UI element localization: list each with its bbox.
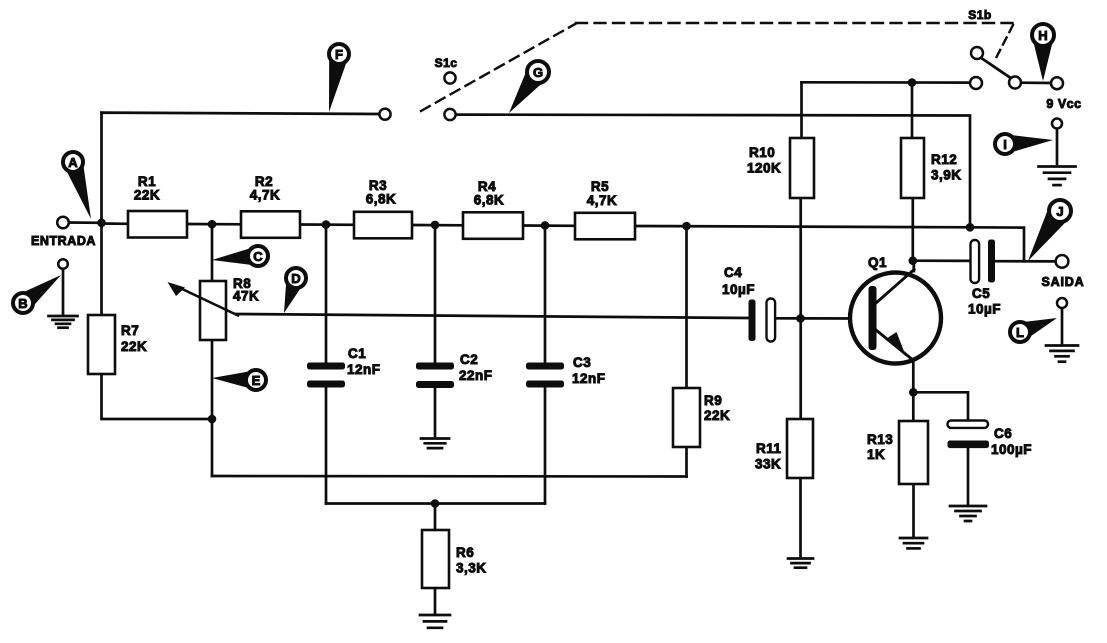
label R2 value <box>250 174 281 203</box>
resistor R13 <box>899 421 928 484</box>
svg-text:22K: 22K <box>704 408 730 423</box>
svg-text:10µF: 10µF <box>722 282 755 297</box>
svg-text:3,3K: 3,3K <box>456 561 487 576</box>
svg-text:H: H <box>1038 28 1047 43</box>
terminal L (chassis) <box>1057 298 1067 308</box>
wire R2-R3 <box>300 223 354 226</box>
dashed linkage S1c diagonal <box>421 24 576 112</box>
wire R3-R4 <box>412 224 463 227</box>
junction R1/R2 (R8 top) <box>208 220 217 229</box>
junction R5/R9 (output) <box>682 222 691 231</box>
resistor R3 <box>354 212 412 239</box>
potentiometer R8 body <box>200 281 226 340</box>
wire emitter junction to C6 <box>913 392 968 421</box>
label C5 value <box>968 286 1001 317</box>
wire R11 bottom lead <box>799 478 802 556</box>
node D callout <box>284 268 306 313</box>
switch S1c pole contact <box>444 72 455 83</box>
wire R8 bottom to bus <box>211 340 214 476</box>
wire R9 top lead <box>685 226 688 388</box>
svg-text:10µF: 10µF <box>968 302 1001 317</box>
resistor R7 <box>88 315 115 374</box>
transistor Q1 base bar <box>869 286 877 350</box>
resistor R10 <box>790 138 814 198</box>
label R12 value <box>931 152 962 183</box>
svg-text:I: I <box>1003 137 1007 152</box>
label S1b <box>968 8 992 22</box>
label SAIDA <box>1042 275 1085 289</box>
wire C1 top lead <box>325 225 328 363</box>
svg-text:4,7K: 4,7K <box>250 188 281 203</box>
wire C3 top lead <box>544 225 547 362</box>
wire S1b output to 9Vcc terminal <box>1021 81 1051 84</box>
label R10 value <box>747 145 781 176</box>
transistor Q1 body <box>850 273 941 364</box>
label R4 value <box>474 179 505 208</box>
node H callout <box>1031 24 1054 81</box>
capacitor C1 <box>307 363 345 388</box>
svg-text:J: J <box>1056 204 1063 219</box>
resistor R2 <box>241 211 300 238</box>
wire C6 bottom lead <box>967 448 970 504</box>
svg-text:G: G <box>533 65 543 80</box>
junction R7/R8 bottom <box>208 415 217 424</box>
capacitor C3 <box>526 363 564 388</box>
ground at terminal L <box>1046 346 1078 362</box>
wire R4-R5 <box>523 224 575 227</box>
svg-text:R5: R5 <box>591 179 609 194</box>
switch S1b blade <box>981 58 1012 79</box>
svg-text:S1b: S1b <box>968 8 992 22</box>
capacitor C4 (hollow plate) <box>767 299 776 342</box>
ground under C2 <box>421 439 449 449</box>
wire collector junction to C5 <box>913 259 970 262</box>
wire R6 bottom lead <box>434 588 437 613</box>
dashed linkage horizontal <box>576 22 1013 24</box>
junction bus B / R6 <box>431 499 440 508</box>
wire C5 to SAIDA <box>995 260 1056 263</box>
svg-text:SAIDA: SAIDA <box>1042 275 1085 289</box>
wire R12 top lead <box>911 83 914 139</box>
svg-text:6,8K: 6,8K <box>474 193 505 208</box>
svg-text:A: A <box>68 155 78 170</box>
wire R9 bottom lead <box>685 447 688 477</box>
svg-text:22K: 22K <box>121 339 147 354</box>
wire Q1 emitter lead down <box>912 359 915 392</box>
svg-text:D: D <box>291 271 300 286</box>
wire R1 left lead <box>102 222 129 225</box>
ground under R6 <box>420 615 450 628</box>
transistor Q1 collector stroke <box>876 261 914 304</box>
node F callout <box>329 44 349 112</box>
label R1 value <box>134 174 160 203</box>
transistor Q1 emitter arrow <box>887 332 907 357</box>
terminal B (input ground) <box>58 259 68 269</box>
label C1 value <box>347 346 381 377</box>
node G callout <box>509 61 549 113</box>
svg-text:6,8K: 6,8K <box>366 192 397 207</box>
wire base junction to Q1 <box>801 317 870 320</box>
label R5 value <box>587 179 618 208</box>
junction emitter node <box>909 388 918 397</box>
wire R1-R2 (node C top) <box>187 223 241 226</box>
label C4 value <box>722 265 755 297</box>
node L callout <box>1010 318 1057 342</box>
node I callout <box>995 134 1053 154</box>
wire C4 to base junction <box>775 317 801 320</box>
capacitor C5 (solid plate) <box>988 240 995 283</box>
wire R6 top lead <box>434 504 437 531</box>
label R13 value <box>867 432 893 462</box>
label C2 value <box>459 352 493 383</box>
svg-text:3,9K: 3,9K <box>931 168 962 183</box>
terminal 9Vcc <box>1051 77 1063 89</box>
wire R7 bottom to R8 node <box>102 374 213 419</box>
label C6 value <box>991 426 1032 457</box>
resistor R4 <box>463 212 523 239</box>
junction base node <box>796 314 805 323</box>
svg-text:R13: R13 <box>867 432 893 447</box>
svg-text:47K: 47K <box>233 289 259 304</box>
svg-text:22K: 22K <box>134 188 160 203</box>
switch S1b upper contact <box>971 47 983 59</box>
wire R5 to output corner <box>635 226 1024 261</box>
potentiometer R8 wiper arrow <box>168 282 239 316</box>
svg-text:33K: 33K <box>755 457 781 472</box>
label R8 value <box>233 276 259 304</box>
junction bypass/output <box>966 223 975 232</box>
svg-text:4,7K: 4,7K <box>587 193 618 208</box>
wire wiper/base line (R8 wiper to C4) <box>236 314 749 318</box>
svg-text:L: L <box>1016 325 1024 340</box>
svg-text:B: B <box>18 296 27 311</box>
capacitor C4 (solid plate) <box>749 300 756 342</box>
switch S1b left contact <box>970 77 982 89</box>
wire bottom bus B (C1-C3 to R6) <box>326 502 545 505</box>
svg-text:C1: C1 <box>348 346 366 361</box>
resistor R6 <box>422 530 449 588</box>
resistor R5 <box>575 213 635 240</box>
label 9 Vcc <box>1046 97 1081 111</box>
label R6 value <box>456 545 487 576</box>
wire R12 bottom to collector junction <box>911 198 914 261</box>
svg-text:S1c: S1c <box>435 56 458 70</box>
wire supply rail (R10 corner to switch) <box>802 81 970 84</box>
capacitor C5 (hollow plate) <box>971 240 980 283</box>
junction R3/R4 (C2 top) <box>431 221 440 230</box>
wire R8 top lead <box>211 224 214 281</box>
switch S1c right contact <box>444 109 455 120</box>
junction R4/R5 (C3 top) <box>541 221 550 230</box>
label S1c <box>435 56 458 70</box>
wire C3 bottom lead to bus B <box>544 388 547 504</box>
svg-text:C2: C2 <box>460 352 478 367</box>
svg-text:22nF: 22nF <box>459 368 493 383</box>
wire R13 bottom lead <box>912 484 915 536</box>
node A callout <box>63 152 91 219</box>
svg-text:120K: 120K <box>747 161 781 176</box>
wire bottom bus A (R8/R7 node to R9) <box>212 475 687 478</box>
wire input vertical (ENTRADA to bypass and R7) <box>100 113 103 316</box>
junction collector node <box>909 256 918 265</box>
ground under R13 <box>900 538 927 548</box>
svg-text:Q1: Q1 <box>868 255 887 270</box>
ground at terminal I <box>1039 167 1076 186</box>
label Q1 <box>868 255 887 270</box>
wire I terminal lead <box>1056 127 1059 164</box>
dashed linkage S1b diagonal <box>994 25 1013 62</box>
wire ENTRADA stub <box>68 221 102 224</box>
label ENTRADA <box>31 234 96 248</box>
label R3 value <box>366 178 397 207</box>
wire C2 bottom lead to ground <box>434 389 437 437</box>
wire emitter junction to R13 <box>912 392 915 421</box>
svg-text:R10: R10 <box>749 145 775 160</box>
svg-text:12nF: 12nF <box>572 371 606 386</box>
svg-text:R11: R11 <box>756 441 782 456</box>
ground under C6 <box>950 506 986 521</box>
label R11 value <box>755 441 782 472</box>
resistor R12 <box>901 138 924 198</box>
switch S1c left contact <box>379 109 390 120</box>
label R7 value <box>121 323 147 354</box>
svg-text:C5: C5 <box>972 286 990 301</box>
junction supply/R12 top <box>908 78 917 87</box>
svg-text:R7: R7 <box>121 323 139 338</box>
ground under R11 <box>788 559 813 568</box>
svg-text:C4: C4 <box>724 265 742 280</box>
junction R2/R3 (C1 top) <box>322 220 331 229</box>
wire B terminal lead <box>62 268 65 315</box>
switch S1b right contact <box>1009 77 1021 89</box>
junction input node <box>97 219 106 228</box>
wire R10 bottom to base junction to R11 <box>799 198 802 419</box>
node C callout <box>212 246 268 266</box>
node E callout <box>212 370 266 390</box>
terminal ENTRADA <box>57 217 69 229</box>
wire C2 top lead <box>434 225 437 363</box>
label C3 value <box>572 355 606 386</box>
transistor Q1 emitter stroke <box>876 330 914 361</box>
resistor R1 <box>128 211 187 238</box>
label R9 value <box>704 393 730 423</box>
svg-text:C: C <box>253 249 263 264</box>
svg-text:R9: R9 <box>704 393 722 408</box>
svg-text:9 Vcc: 9 Vcc <box>1046 97 1081 111</box>
svg-text:1K: 1K <box>867 447 885 462</box>
wire top bypass right segment (node G) <box>456 115 970 227</box>
svg-text:12nF: 12nF <box>347 362 381 377</box>
svg-text:C6: C6 <box>994 426 1012 441</box>
svg-text:C3: C3 <box>573 355 591 370</box>
capacitor C2 <box>416 363 454 389</box>
terminal I (chassis) <box>1052 119 1062 129</box>
svg-text:ENTRADA: ENTRADA <box>31 234 96 248</box>
wire R10 top lead <box>800 82 803 138</box>
terminal SAIDA <box>1056 255 1069 268</box>
svg-text:100µF: 100µF <box>991 442 1032 457</box>
node J callout <box>1028 200 1071 261</box>
wire top bypass left segment (node F) <box>102 113 380 114</box>
resistor R9 <box>673 388 700 447</box>
ground at input <box>49 316 78 328</box>
svg-text:F: F <box>335 47 343 62</box>
capacitor C6 (solid plate) <box>948 441 990 449</box>
capacitor C6 (hollow plate) <box>948 421 989 428</box>
svg-text:R12: R12 <box>931 152 957 167</box>
svg-text:R6: R6 <box>456 545 474 560</box>
wire C1 bottom lead to bus B <box>325 388 328 504</box>
resistor R11 <box>787 419 813 478</box>
svg-text:E: E <box>252 373 261 388</box>
node B callout <box>13 275 61 313</box>
wire L terminal lead <box>1061 307 1064 343</box>
